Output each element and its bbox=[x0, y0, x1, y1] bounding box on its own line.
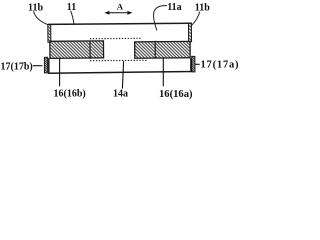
cover plate 11 top edge bbox=[48, 23, 192, 24]
external terminal 17(17a) right bar bbox=[192, 56, 195, 72]
leader 11 bbox=[71, 11, 74, 24]
base substrate (bottom band, open top) bbox=[49, 58, 191, 73]
leader 17(17b) bbox=[33, 65, 43, 67]
rotated package drawing bbox=[44, 23, 195, 73]
leader 16(16a) bbox=[162, 58, 164, 87]
svg-text:14a: 14a bbox=[113, 88, 128, 99]
element region 14a dashed rectangle bbox=[90, 38, 155, 61]
svg-text:11: 11 bbox=[67, 2, 76, 13]
svg-text:17(17b): 17(17b) bbox=[1, 61, 33, 72]
adhesive 16(16b) left hatched block bbox=[50, 41, 104, 59]
svg-text:16(16a): 16(16a) bbox=[159, 89, 193, 100]
leader 17(17a) bbox=[195, 63, 200, 65]
adhesive 16(16a) right hatched block bbox=[135, 41, 191, 58]
svg-text:17(17a): 17(17a) bbox=[201, 60, 240, 71]
bent end 11b right cap bbox=[188, 23, 191, 42]
leader 11b right bbox=[191, 12, 200, 27]
bent end 11b left cap bbox=[48, 25, 51, 43]
svg-text:16(16b): 16(16b) bbox=[54, 88, 86, 99]
leader 11a (with dash) bbox=[154, 6, 167, 31]
leader 14a bbox=[122, 61, 123, 88]
external terminal 17(17b) left bar bbox=[44, 57, 48, 73]
svg-text:11b: 11b bbox=[28, 2, 43, 13]
svg-text:11a: 11a bbox=[167, 2, 181, 13]
leader 11b left bbox=[34, 11, 49, 25]
svg-text:A: A bbox=[117, 1, 124, 11]
leader 16(16b) bbox=[59, 58, 61, 86]
double-headed arrow A bbox=[104, 11, 132, 15]
svg-text:11b: 11b bbox=[195, 3, 210, 14]
